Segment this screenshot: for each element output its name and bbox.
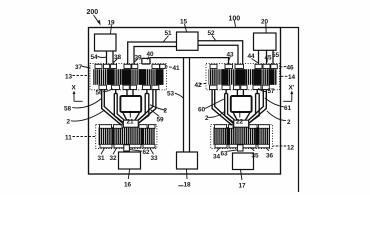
pad 40 [142,58,150,64]
reference numerals [64,9,296,190]
left outer arm left pair 58 [102,90,122,126]
dotted outline 11 [96,125,157,149]
wire 51 [128,42,177,65]
lead 35 [251,148,255,151]
lead 43 [229,57,231,61]
svg-text:20: 20 [261,19,269,26]
wire 38 [112,51,114,64]
left inner frame arm right pair [137,94,149,125]
lead 17 [241,170,243,180]
svg-text:X: X [72,85,77,92]
wire 55 [272,50,274,64]
right inner frame arm right pair [247,94,259,125]
anchor neck left [123,120,138,127]
electrode pads bottom row of band 13 [99,85,159,89]
wire 45 [266,50,268,64]
svg-text:13: 13 [65,74,73,81]
svg-text:40: 40 [147,51,155,58]
right outer arm left pair 60 [212,90,232,126]
svg-text:22: 22 [236,119,244,126]
wire 54 [106,51,108,64]
box 19 [95,34,117,51]
svg-text:16: 16 [124,182,132,189]
axis X left [73,91,83,102]
left suspension: stubs to mass 21 [126,90,128,96]
svg-text:200: 200 [87,9,99,16]
svg-text:43: 43 [227,52,235,59]
frame (substrate outline 200) [89,28,281,175]
svg-text:100: 100 [229,16,241,23]
electrode bars bottom row of band 12 [215,144,270,148]
comb band 12 bottom-right [213,127,270,145]
comb band 11 bottom-left [98,127,155,145]
right inner frame arm left pair [225,94,236,125]
electrode bars bottom row of band 11 [100,144,155,148]
svg-text:42: 42 [195,82,203,89]
lead 58 [72,98,102,108]
svg-text:17: 17 [239,183,247,190]
label lead 200 arrow [94,15,101,26]
lead 100 [235,21,236,27]
svg-text:32: 32 [110,155,118,162]
proof mass 22 [231,96,252,112]
wire top rail 100 extension [281,28,299,193]
svg-text:52: 52 [208,30,216,37]
svg-text:39: 39 [135,55,143,62]
dotted outline 14 [206,64,280,90]
svg-text:37: 37 [75,64,83,71]
proof mass 21 [120,96,141,112]
lead 38 [114,59,118,63]
right suspension: stubs to mass 22 [236,90,238,96]
connector block 63 [237,145,243,151]
svg-text:63: 63 [221,151,229,158]
lead 19 [111,25,112,34]
box 17 [233,153,254,170]
lead 61 [265,98,284,107]
lead 59 [151,110,160,117]
svg-text:19: 19 [108,20,116,27]
lead 2 right [267,111,286,121]
lead 20 [265,24,267,33]
svg-text:46: 46 [287,65,295,72]
lead 14 dash [280,75,287,77]
wire 39 [134,47,177,65]
box 20 [254,33,277,50]
svg-text:44: 44 [248,53,256,60]
lead 22 [239,111,241,118]
lead 11 dashes [73,136,96,138]
lead 33 [150,148,154,154]
lead 21 [129,111,131,118]
mass 22 lower links [233,113,238,123]
electrode pads top row of band 13 [95,64,165,68]
anchor neck right [234,120,249,127]
svg-text:57: 57 [268,88,276,95]
wire 52 [198,41,243,64]
lead 39 [134,59,138,63]
lead 13 dashes [73,75,90,77]
mass 21 lower links [123,113,128,123]
svg-text:55: 55 [272,52,280,59]
svg-text:14: 14 [288,74,296,81]
svg-text:35: 35 [252,153,260,160]
lead 32 [113,148,117,154]
lead 54 [98,56,107,57]
underline mark near 18 [178,185,183,187]
electrode bars top row of band 12 [215,125,270,129]
electrode bars top row of band 11 [100,125,156,129]
wire 52 inner [198,45,238,64]
svg-text:45: 45 [265,55,273,62]
lead 16 [128,169,129,179]
lead 36 [266,148,269,151]
wire 40-43 cross connection [150,58,229,64]
svg-text:53: 53 [167,91,175,98]
lead 2 inner-left [150,105,166,111]
comb band 13/37 top-left [93,69,164,85]
lead 42 [200,82,207,85]
svg-text:51: 51 [165,30,173,37]
svg-text:58: 58 [64,106,72,113]
svg-text:2: 2 [67,119,71,126]
svg-text:21: 21 [127,119,135,126]
svg-text:2: 2 [287,119,291,126]
connector block 62 [124,145,130,151]
lead 52 [212,36,216,41]
svg-text:56: 56 [96,90,104,97]
svg-text:61: 61 [284,105,292,112]
label leads top [71,21,288,186]
lead 44 [252,59,258,63]
svg-text:33: 33 [151,155,159,162]
right outer arm right pair 61 [247,90,267,126]
svg-text:2: 2 [205,115,209,122]
lead 15 [185,24,187,32]
svg-text:54: 54 [91,54,99,61]
lead 34 [217,148,220,152]
lead 46 dash [280,66,287,68]
left outer arm right pair 59 [136,90,156,126]
svg-text:38: 38 [114,54,122,61]
left inner frame arm left pair [114,94,125,125]
lead 40 [147,57,149,60]
svg-text:34: 34 [213,154,221,161]
lead 62 [130,150,142,152]
lead 45 [266,60,269,63]
svg-text:41: 41 [173,65,181,72]
svg-text:15: 15 [180,19,188,26]
electrode pads bottom row of band 14 [210,85,270,89]
lead 41 dash [167,66,172,68]
svg-text:60: 60 [198,107,206,114]
lead 37 [82,66,91,68]
comb band 14/42 top-right [209,69,278,85]
box 16 [119,152,141,169]
svg-text:36: 36 [266,153,274,160]
electrode pads top row of band 14 [210,64,277,68]
svg-text:X': X' [289,85,295,92]
lead 51 [164,36,169,42]
box 15 [177,32,199,50]
wire 44 [258,50,260,64]
lead 2 inner-right [208,111,225,118]
svg-text:11: 11 [65,135,72,142]
lead 31 [101,148,105,154]
svg-text:59: 59 [157,117,165,124]
svg-text:12: 12 [287,145,295,152]
wire 53 pair [183,58,185,152]
dotted outline 13 [90,64,167,90]
svg-text:62: 62 [143,149,151,156]
lead 57 [258,88,267,91]
lead 56 [103,89,113,92]
dotted outline 12 [211,125,273,149]
axis X' right [283,91,293,102]
svg-text:18: 18 [184,182,192,189]
lead 2 left [71,111,104,121]
lead 63 [227,150,237,151]
lead 18 [186,169,189,179]
lead 60 [205,99,224,109]
svg-text:31: 31 [98,155,106,162]
lead 12 dash [273,145,286,147]
svg-text:2: 2 [164,108,168,115]
lead 53 [175,93,184,98]
box 18 [177,152,198,169]
